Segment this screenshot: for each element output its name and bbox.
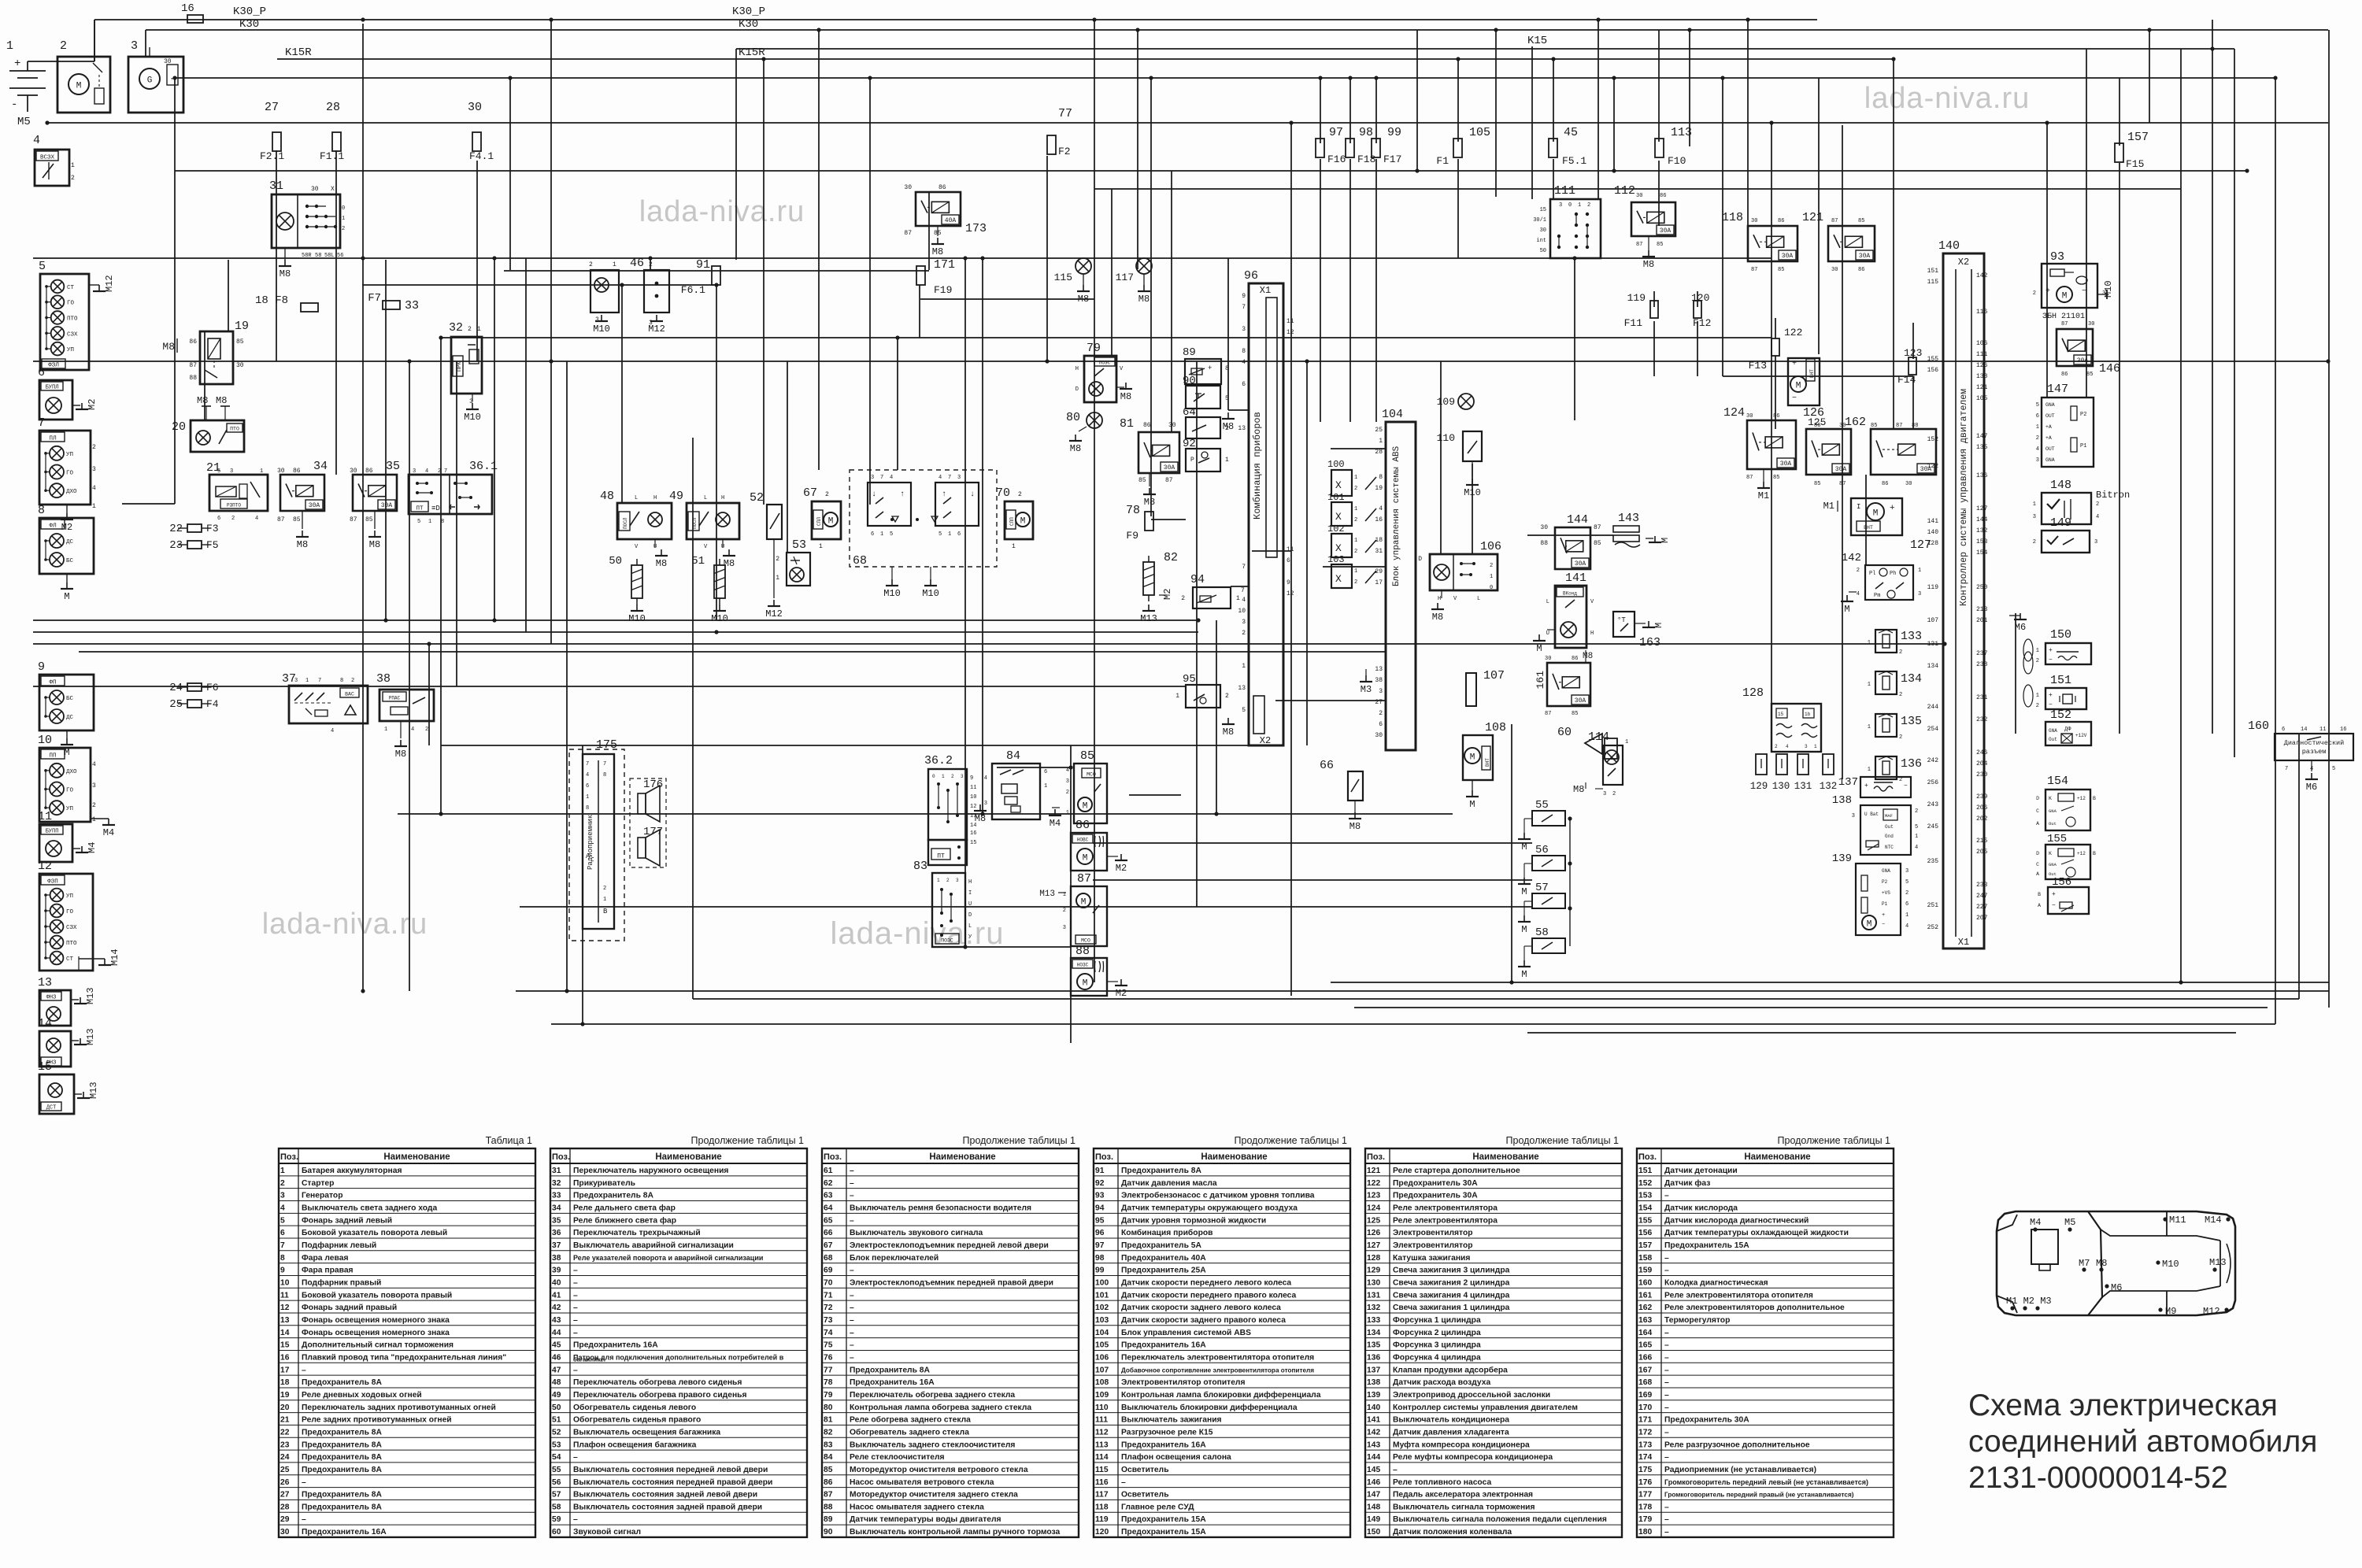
- svg-text:–: –: [1664, 1329, 1669, 1337]
- svg-text:97: 97: [1095, 1241, 1105, 1250]
- refrigerant pressure sensor 142: [1841, 552, 1921, 615]
- hazard switch 37: [282, 672, 368, 734]
- svg-text:M: M: [1521, 969, 1527, 980]
- svg-text:Датчик кислорода: Датчик кислорода: [1664, 1204, 1738, 1212]
- svg-text:110: 110: [1095, 1403, 1109, 1412]
- svg-text:106: 106: [1480, 540, 1501, 553]
- svg-text:47: 47: [552, 1366, 561, 1374]
- svg-text:M10: M10: [883, 588, 901, 599]
- svg-text:5: 5: [417, 519, 420, 525]
- svg-text:1: 1: [1236, 595, 1240, 602]
- svg-text:–: –: [573, 1267, 578, 1275]
- wheel sensor 100: [1327, 459, 1376, 496]
- side repeater left 6: [38, 366, 98, 420]
- svg-text:ДФ: ДФ: [2064, 727, 2071, 733]
- svg-text:D: D: [2036, 796, 2039, 801]
- svg-text:Датчик расхода воздуха: Датчик расхода воздуха: [1393, 1378, 1490, 1387]
- svg-text:Реле электровентилятора: Реле электровентилятора: [1393, 1216, 1498, 1225]
- svg-text:Схема электрическая: Схема электрическая: [1968, 1389, 2278, 1422]
- svg-text:3: 3: [1805, 744, 1808, 749]
- svg-text:X2: X2: [1958, 257, 1969, 268]
- svg-text:ПТО: ПТО: [66, 941, 77, 947]
- svg-text:ФЗП: ФЗП: [47, 879, 58, 886]
- svg-text:M: M: [2062, 292, 2068, 301]
- svg-text:M8: M8: [297, 539, 308, 550]
- svg-text:145: 145: [1367, 1466, 1380, 1474]
- starter relay 121: [1802, 211, 1875, 273]
- svg-text:25: 25: [169, 698, 183, 711]
- svg-text:M10: M10: [593, 324, 610, 335]
- svg-text:30A: 30A: [1660, 227, 1672, 235]
- svg-text:254: 254: [1927, 726, 1939, 733]
- svg-text:4: 4: [331, 728, 334, 734]
- svg-text:4: 4: [1242, 359, 1246, 366]
- svg-text:58L: 58L: [324, 253, 335, 259]
- svg-text:144: 144: [1976, 516, 1988, 523]
- svg-text:M: M: [1796, 382, 1801, 391]
- svg-text:F2: F2: [1058, 146, 1071, 157]
- svg-text:L: L: [1477, 596, 1480, 602]
- svg-text:M: M: [1020, 517, 1026, 527]
- svg-text:2: 2: [825, 491, 829, 498]
- svg-text:M4: M4: [103, 827, 114, 838]
- svg-text:GNA: GNA: [2049, 728, 2057, 734]
- svg-text:115: 115: [1927, 279, 1939, 286]
- svg-text:2: 2: [1063, 908, 1066, 914]
- svg-text:3: 3: [92, 782, 96, 790]
- svg-text:4: 4: [255, 516, 258, 522]
- svg-text:Радиоприемник (не устанавливае: Радиоприемник (не устанавливается): [1664, 1466, 1816, 1474]
- svg-text:P1: P1: [2080, 443, 2086, 449]
- svg-text:–: –: [302, 1478, 306, 1487]
- svg-text:30A: 30A: [1575, 560, 1586, 568]
- handbrake switch 90: [1183, 375, 1229, 409]
- svg-text:–: –: [1664, 1453, 1669, 1462]
- svg-text:7: 7: [1241, 587, 1245, 594]
- svg-text:3: 3: [1603, 791, 1606, 797]
- svg-text:ГО: ГО: [67, 301, 75, 307]
- svg-text:123: 123: [1367, 1192, 1380, 1200]
- svg-text:1: 1: [1915, 834, 1918, 840]
- svg-text:Выключатель состояния передней: Выключатель состояния передней правой дв…: [573, 1478, 772, 1487]
- svg-text:5: 5: [890, 531, 893, 538]
- svg-text:28: 28: [280, 1503, 290, 1511]
- svg-text:202: 202: [1976, 815, 1988, 823]
- svg-text:1: 1: [942, 774, 945, 779]
- fuse 77 F2: [1047, 107, 1072, 157]
- svg-text:1: 1: [1225, 457, 1229, 464]
- svg-text:3: 3: [1242, 619, 1246, 626]
- svg-text:169: 169: [1638, 1391, 1652, 1400]
- svg-text:X: X: [1335, 573, 1342, 585]
- svg-text:1: 1: [1868, 640, 1871, 646]
- svg-text:73: 73: [824, 1316, 833, 1325]
- svg-text:GNA: GNA: [2045, 402, 2055, 408]
- washer pump 86: [1071, 819, 1127, 874]
- svg-text:lada-niva.ru: lada-niva.ru: [262, 908, 428, 941]
- parts table 5: [1365, 1135, 1622, 1537]
- svg-text:−: −: [2049, 701, 2053, 708]
- svg-text:126: 126: [1976, 362, 1988, 369]
- svg-text:2: 2: [1612, 791, 1616, 797]
- svg-text:64: 64: [824, 1204, 833, 1212]
- svg-text:M: M: [1081, 898, 1087, 908]
- rear wiper motor 87: [1039, 872, 1107, 946]
- svg-text:K30_P: K30_P: [233, 6, 266, 18]
- svg-text:A: A: [2038, 903, 2041, 908]
- svg-text:H: H: [653, 495, 657, 501]
- svg-text:19: 19: [235, 320, 249, 333]
- svg-text:107: 107: [1483, 669, 1505, 682]
- svg-text:–: –: [573, 1366, 578, 1374]
- svg-text:160: 160: [1638, 1278, 1652, 1287]
- svg-text:Батарея аккумуляторная: Батарея аккумуляторная: [302, 1167, 402, 1175]
- svg-text:48: 48: [552, 1378, 561, 1387]
- svg-text:+12V: +12V: [2075, 733, 2087, 738]
- svg-text:U Bat: U Bat: [1864, 812, 1879, 817]
- rear defog element 82: [1140, 551, 1178, 624]
- svg-text:80: 80: [1066, 411, 1080, 424]
- svg-text:–: –: [1664, 1267, 1669, 1275]
- svg-text:K: K: [2049, 851, 2052, 856]
- svg-text:Выключатель состояния задней л: Выключатель состояния задней левой двери: [573, 1491, 757, 1500]
- svg-text:101: 101: [1095, 1291, 1109, 1300]
- svg-text:232: 232: [1976, 716, 1988, 723]
- svg-text:Фонарь освещения номерного зна: Фонарь освещения номерного знака: [302, 1329, 450, 1337]
- svg-text:K15: K15: [1527, 35, 1547, 47]
- headlamp right 9: [38, 660, 94, 730]
- plate lamp 14: [38, 1017, 96, 1067]
- svg-text:2: 2: [1899, 777, 1902, 783]
- svg-text:СТ: СТ: [67, 285, 75, 291]
- svg-text:1: 1: [92, 816, 96, 823]
- svg-text:3: 3: [92, 466, 96, 473]
- svg-text:103: 103: [1095, 1316, 1109, 1325]
- svg-text:M14: M14: [109, 949, 120, 966]
- svg-text:М6: М6: [2306, 782, 2317, 793]
- svg-text:32: 32: [552, 1179, 561, 1188]
- svg-text:245: 245: [1927, 823, 1939, 830]
- svg-text:P: P: [1190, 457, 1194, 464]
- svg-text:GNA: GNA: [1882, 868, 1890, 874]
- svg-text:13: 13: [38, 976, 52, 989]
- svg-text:3: 3: [984, 801, 987, 807]
- svg-text:8: 8: [586, 805, 589, 812]
- svg-text:9: 9: [1242, 293, 1246, 300]
- switch block 68: [850, 470, 997, 599]
- svg-text:M2: M2: [1116, 988, 1127, 999]
- column switch 36.1: [409, 460, 498, 525]
- svg-text:1: 1: [586, 794, 589, 801]
- svg-text:82: 82: [824, 1428, 833, 1437]
- svg-text:2: 2: [589, 261, 593, 268]
- svg-text:110: 110: [1437, 432, 1455, 444]
- svg-text:116: 116: [1095, 1478, 1109, 1487]
- svg-text:21: 21: [280, 1416, 290, 1425]
- svg-text:Свеча зажигания 2 цилиндра: Свеча зажигания 2 цилиндра: [1393, 1278, 1510, 1287]
- svg-text:2: 2: [946, 878, 950, 883]
- relay 173 aux: [904, 184, 987, 257]
- svg-text:Реле топливного насоса: Реле топливного насоса: [1393, 1478, 1491, 1487]
- svg-text:ВНТ: ВНТ: [1864, 525, 1873, 531]
- svg-text:Контроллер системы управления: Контроллер системы управления двигателем: [1393, 1403, 1578, 1412]
- svg-text:86: 86: [1778, 218, 1784, 224]
- svg-text:5: 5: [1242, 707, 1246, 714]
- svg-text:–: –: [1664, 1192, 1669, 1200]
- svg-text:Out: Out: [2049, 821, 2057, 827]
- relay 21 RZPTO: [206, 461, 268, 522]
- thermo regulator 163: [1613, 612, 1664, 649]
- svg-text:161: 161: [1638, 1291, 1652, 1300]
- svg-text:4: 4: [984, 775, 987, 782]
- svg-text:–: –: [850, 1267, 854, 1275]
- svg-text:29: 29: [280, 1515, 290, 1524]
- svg-text:Поз.: Поз.: [1367, 1152, 1385, 1162]
- fuse 91 F6.1: [681, 258, 720, 296]
- svg-text:56: 56: [337, 253, 343, 259]
- svg-text:Комбинация приборов: Комбинация приборов: [1121, 1228, 1212, 1237]
- svg-text:ДСТ: ДСТ: [46, 1105, 57, 1111]
- svg-text:15: 15: [970, 840, 976, 846]
- svg-text:131: 131: [1927, 641, 1939, 648]
- svg-text:Датчик детонации: Датчик детонации: [1664, 1167, 1738, 1175]
- svg-text:Предохранитель 5А: Предохранитель 5А: [1121, 1241, 1202, 1250]
- svg-text:Реле стеклоочистителя: Реле стеклоочистителя: [850, 1453, 945, 1462]
- svg-text:5: 5: [217, 468, 220, 475]
- fuse 99 F17: [1372, 126, 1401, 165]
- svg-text:Предохранитель 8А: Предохранитель 8А: [302, 1440, 383, 1449]
- svg-text:140: 140: [1938, 239, 1960, 253]
- knock sensor 151: [2023, 674, 2086, 709]
- svg-text:M7: M7: [2079, 1258, 2090, 1269]
- svg-text:2: 2: [71, 175, 75, 182]
- svg-text:30: 30: [1545, 656, 1551, 662]
- fuse 30 F4.1: [468, 101, 494, 162]
- svg-text:171: 171: [934, 258, 955, 272]
- svg-text:116: 116: [1976, 309, 1988, 316]
- svg-text:4: 4: [1066, 767, 1069, 774]
- svg-text:–: –: [1121, 1478, 1126, 1487]
- speaker 176: [630, 778, 666, 867]
- svg-text:7: 7: [318, 678, 321, 684]
- svg-text:1: 1: [2033, 501, 2036, 508]
- svg-text:36.2: 36.2: [924, 754, 953, 767]
- svg-text:ПП: ПП: [49, 753, 56, 760]
- svg-text:−: −: [1904, 782, 1908, 790]
- svg-text:Диагностический: Диагностический: [2284, 739, 2345, 747]
- svg-text:+12: +12: [2077, 851, 2086, 856]
- svg-text:87: 87: [1165, 477, 1173, 484]
- svg-text:1: 1: [1868, 682, 1871, 688]
- svg-text:3: 3: [1379, 688, 1383, 695]
- svg-text:1: 1: [342, 216, 345, 222]
- svg-text:F12: F12: [1693, 317, 1711, 329]
- svg-text:155: 155: [2047, 833, 2067, 845]
- svg-text:16: 16: [1375, 516, 1383, 523]
- svg-text:M8: M8: [975, 813, 986, 824]
- svg-text:85: 85: [1138, 477, 1146, 484]
- light switch 31: [269, 179, 345, 279]
- svg-text:85: 85: [1657, 242, 1663, 248]
- svg-text:237: 237: [1976, 650, 1988, 657]
- svg-text:85: 85: [1778, 267, 1784, 273]
- svg-text:+: +: [2049, 647, 2053, 654]
- fuse 28 F1.1: [320, 101, 344, 162]
- svg-text:Фара левая: Фара левая: [302, 1254, 348, 1263]
- svg-text:30: 30: [1746, 413, 1753, 420]
- svg-text:35: 35: [386, 460, 400, 473]
- svg-text:3: 3: [961, 774, 964, 779]
- svg-text:10: 10: [1238, 608, 1246, 615]
- svg-text:≡D: ≡D: [431, 505, 440, 512]
- svg-text:114: 114: [1588, 730, 1609, 744]
- svg-text:51: 51: [552, 1416, 561, 1425]
- svg-text:Датчик положения коленвала: Датчик положения коленвала: [1393, 1528, 1512, 1537]
- svg-text:Боковой указатель поворота лев: Боковой указатель поворота левый: [302, 1229, 447, 1237]
- door switch 58: [1518, 926, 1565, 980]
- svg-text:30: 30: [280, 1528, 290, 1537]
- svg-text:Выключатель состояния передней: Выключатель состояния передней левой две…: [573, 1466, 768, 1474]
- svg-text:1: 1: [1578, 202, 1581, 209]
- svg-text:83: 83: [913, 860, 927, 873]
- svg-text:Датчик температуры охлаждающей: Датчик температуры охлаждающей жидкости: [1664, 1229, 1849, 1237]
- svg-text:7: 7: [2285, 766, 2288, 772]
- svg-text:49: 49: [669, 490, 683, 503]
- svg-text:227: 227: [1976, 904, 1988, 911]
- svg-text:1: 1: [1354, 538, 1357, 544]
- svg-text:70: 70: [996, 486, 1010, 500]
- svg-text:133: 133: [1367, 1316, 1380, 1325]
- svg-text:Фонарь задний левый: Фонарь задний левый: [302, 1216, 392, 1225]
- svg-text:1: 1: [1814, 744, 1817, 749]
- svg-text:95: 95: [1095, 1216, 1105, 1225]
- svg-text:Датчик давления масла: Датчик давления масла: [1121, 1179, 1217, 1188]
- svg-text:Реле электровентилятора: Реле электровентилятора: [1393, 1204, 1498, 1212]
- svg-text:10: 10: [38, 734, 52, 747]
- svg-text:86: 86: [1773, 413, 1779, 420]
- svg-text:12: 12: [970, 804, 976, 810]
- svg-text:124: 124: [1723, 406, 1745, 420]
- svg-text:M13: M13: [88, 1082, 99, 1099]
- svg-text:57: 57: [552, 1491, 561, 1500]
- svg-text:Стартер: Стартер: [302, 1179, 334, 1188]
- svg-text:K: K: [2049, 796, 2052, 801]
- svg-text:Выключатель заднего стеклоочис: Выключатель заднего стеклоочистителя: [850, 1440, 1015, 1449]
- svg-text:4: 4: [2036, 446, 2039, 453]
- svg-text:Out: Out: [1885, 824, 1894, 830]
- svg-text:−: −: [1882, 922, 1885, 928]
- svg-text:X: X: [1335, 542, 1342, 554]
- svg-text:87: 87: [904, 230, 912, 237]
- svg-text:98: 98: [1359, 126, 1373, 139]
- svg-text:132: 132: [1976, 527, 1988, 534]
- svg-text:Наименование: Наименование: [929, 1152, 995, 1162]
- svg-text:F9: F9: [1126, 530, 1138, 542]
- svg-text:1: 1: [428, 519, 431, 525]
- svg-text:85: 85: [1572, 711, 1578, 717]
- svg-text:K15R: K15R: [739, 46, 765, 59]
- svg-text:Датчик скорости переднего прав: Датчик скорости переднего правого колеса: [1121, 1291, 1297, 1300]
- svg-text:98: 98: [1095, 1254, 1105, 1263]
- svg-text:Переключатель электровентилято: Переключатель электровентилятора отопите…: [1121, 1353, 1314, 1362]
- heater fan relay 161: [1535, 650, 1593, 717]
- svg-text:+: +: [2049, 692, 2053, 699]
- svg-text:32: 32: [449, 321, 463, 335]
- svg-text:128: 128: [1742, 686, 1764, 700]
- svg-text:152: 152: [2050, 708, 2071, 722]
- svg-text:7: 7: [948, 475, 951, 481]
- svg-text:157: 157: [1638, 1241, 1652, 1250]
- fuse 78 F9: [1126, 504, 1153, 542]
- svg-text:Клапан продувки адсорбера: Клапан продувки адсорбера: [1393, 1365, 1508, 1374]
- svg-text:30: 30: [1636, 193, 1642, 199]
- svg-text:Громкоговоритель передний левы: Громкоговоритель передний левый (не уста…: [1664, 1478, 1868, 1486]
- svg-text:147: 147: [2047, 383, 2068, 396]
- side repeater right 11: [38, 810, 98, 862]
- svg-text:1: 1: [1868, 724, 1871, 730]
- svg-text:127: 127: [1976, 505, 1988, 512]
- svg-text:Предохранитель 15А: Предохранитель 15А: [1121, 1528, 1206, 1537]
- svg-text:5: 5: [1915, 824, 1918, 830]
- svg-text:30: 30: [1751, 218, 1757, 224]
- wire door switch column: [1569, 819, 1571, 946]
- svg-text:M8: M8: [395, 749, 406, 760]
- svg-text:6: 6: [1242, 381, 1246, 388]
- svg-text:+: +: [1890, 504, 1895, 513]
- svg-text:60: 60: [552, 1528, 561, 1537]
- svg-text:M: M: [1873, 509, 1879, 519]
- svg-text:В: В: [603, 908, 608, 915]
- svg-text:13: 13: [280, 1316, 290, 1325]
- svg-text:–: –: [850, 1329, 854, 1337]
- svg-text:30: 30: [164, 58, 172, 65]
- svg-text:Предохранитель 8А: Предохранитель 8А: [1121, 1167, 1202, 1175]
- svg-text:Предохранитель 8А: Предохранитель 8А: [850, 1366, 931, 1374]
- svg-text:50: 50: [609, 555, 622, 568]
- svg-text:1: 1: [1379, 438, 1383, 445]
- svg-text:96: 96: [1244, 269, 1258, 283]
- svg-text:2: 2: [1899, 649, 1902, 656]
- svg-text:3: 3: [1905, 868, 1908, 875]
- svg-text:87: 87: [350, 516, 357, 523]
- svg-text:128: 128: [1927, 540, 1939, 547]
- speaker 177: [638, 826, 663, 866]
- svg-text:1: 1: [280, 1167, 285, 1175]
- fuse 105 F1: [1436, 126, 1490, 167]
- fuse 157 F15: [2115, 131, 2149, 170]
- injector 134: [1868, 671, 1922, 698]
- svg-text:ПТО: ПТО: [230, 427, 239, 432]
- svg-text:108: 108: [1485, 721, 1506, 734]
- svg-text:lada-niva.ru: lada-niva.ru: [830, 916, 1004, 951]
- svg-text:171: 171: [1638, 1416, 1652, 1425]
- svg-text:+VS: +VS: [1882, 890, 1890, 896]
- svg-text:120: 120: [1095, 1528, 1109, 1537]
- svg-text:ФЛ: ФЛ: [49, 523, 57, 530]
- svg-text:5: 5: [1905, 879, 1908, 886]
- svg-text:54: 54: [552, 1453, 561, 1462]
- svg-text:155: 155: [1638, 1216, 1652, 1225]
- svg-text:1: 1: [776, 575, 779, 582]
- svg-text:180: 180: [1638, 1528, 1652, 1537]
- heater fan switch 106: [1418, 540, 1501, 623]
- svg-text:233: 233: [1976, 882, 1988, 889]
- svg-text:39: 39: [552, 1267, 561, 1275]
- svg-text:–: –: [1664, 1403, 1669, 1412]
- svg-text:38: 38: [552, 1254, 561, 1263]
- svg-text:–: –: [850, 1216, 854, 1225]
- svg-text:X: X: [1335, 479, 1342, 491]
